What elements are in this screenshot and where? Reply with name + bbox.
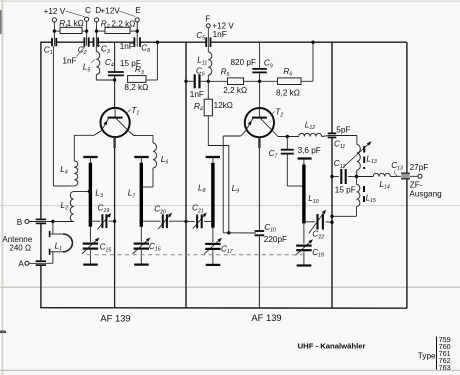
wire T2 emitter — [241, 131, 246, 136]
node C6 on wall — [184, 80, 187, 83]
resistor R5 2.2k — [208, 80, 227, 82]
ground of C17 — [212, 250, 214, 264]
capacitor C12 15pF — [332, 176, 339, 178]
resistor R6 8.2k — [260, 80, 278, 82]
node L11/R4 — [207, 80, 210, 83]
node C22 tap on L10 — [302, 220, 306, 224]
svg-text:15 pF: 15 pF — [335, 186, 356, 195]
ground of C18 — [303, 251, 305, 264]
svg-text:27pF: 27pF — [410, 163, 429, 172]
T1 emitter with arrow — [101, 118, 108, 130]
capacitor C6 1nF — [186, 80, 194, 82]
node D/R2 — [95, 29, 98, 32]
resonant line L8 — [206, 156, 220, 158]
resistor R3 8.2k — [146, 79, 157, 81]
node R3 on top wall — [156, 41, 159, 44]
terminal F +12V — [207, 28, 209, 47]
svg-text:763: 763 — [439, 363, 451, 372]
wire L10 to C18 — [303, 223, 305, 243]
ground of C15 — [89, 250, 91, 264]
terminal E — [136, 22, 138, 38]
svg-text:Ausgang: Ausgang — [409, 189, 442, 198]
transistor T1 — [101, 108, 130, 137]
label pointer D+12V to E — [119, 11, 136, 17]
terminal +12V — [53, 22, 55, 38]
+12V feed to L4 — [53, 185, 74, 187]
inductor L4 — [74, 161, 78, 186]
svg-text:8,2 kΩ: 8,2 kΩ — [124, 83, 148, 92]
inductor L15 adjustable — [356, 177, 358, 185]
trimmer C15 — [83, 243, 98, 245]
wire L3 to C15 — [89, 227, 91, 242]
wire B to L2 — [53, 221, 74, 223]
resistor R2 2.2k — [97, 30, 106, 32]
wire L14 to C13 — [390, 175, 401, 177]
node C12/L13/L15/L14 — [355, 175, 358, 178]
wire L1 to A — [52, 252, 54, 263]
node base T1 — [113, 78, 116, 81]
capacitor C4 15pF in wall — [114, 42, 116, 72]
inductor L14 — [357, 176, 374, 178]
resistor R1 1k — [54, 30, 60, 32]
capacitor C13 27pF feedthrough — [401, 173, 410, 179]
node R6 on top wall — [311, 41, 314, 44]
node C19 tap on L3 — [89, 219, 93, 223]
svg-text:1 kΩ: 1 kΩ — [67, 19, 84, 28]
node C/R1 — [85, 29, 88, 32]
svg-text:1nF: 1nF — [213, 30, 227, 39]
terminal A — [25, 261, 29, 265]
label pointer +12V to C — [66, 11, 85, 17]
resistor R4 12k — [207, 81, 209, 99]
svg-text:240 Ω: 240 Ω — [9, 243, 31, 252]
T1 case lead / wall below — [113, 137, 115, 148]
svg-text:UHF - Kanalwähler: UHF - Kanalwähler — [298, 342, 366, 351]
label pointer C13 — [395, 171, 398, 176]
wire R4 to L9 — [207, 116, 209, 146]
svg-text:220pF: 220pF — [264, 235, 287, 244]
svg-text:2,2 kΩ: 2,2 kΩ — [112, 19, 136, 28]
resonant line L3 — [83, 156, 97, 158]
node B / L1 — [51, 220, 54, 223]
capacitor C3 feedthrough — [93, 37, 95, 46]
svg-text:+12 V: +12 V — [212, 21, 234, 30]
capacitor C7 3.6pF — [286, 137, 288, 150]
terminal C — [86, 21, 88, 45]
capacitor C1 feedthrough 1nF — [51, 38, 53, 46]
wire L8 to C17 — [212, 228, 214, 243]
terminal B — [25, 220, 29, 224]
inductor L13 adjustable — [357, 145, 360, 171]
inductor L6 — [153, 143, 157, 168]
trimmer C16 — [134, 243, 149, 245]
svg-text:1nF: 1nF — [190, 90, 204, 99]
screen wall between mixer and oscillator compartments — [185, 42, 187, 308]
node tap on L3 — [88, 190, 92, 194]
base feed wire stage1 — [96, 79, 114, 81]
svg-text:+12 V: +12 V — [44, 7, 66, 16]
feedthrough capacitor at A — [36, 260, 46, 262]
svg-text:Type: Type — [418, 351, 436, 360]
transistor T2 — [245, 108, 274, 137]
trimmer C18 — [296, 245, 311, 247]
T2 output lead — [258, 137, 260, 148]
node +12V/R1 — [53, 29, 56, 32]
svg-text:AF 139: AF 139 — [100, 313, 130, 324]
inductor L11 — [207, 47, 209, 52]
svg-text:12kΩ: 12kΩ — [214, 101, 233, 110]
capacitor C9 820pF — [259, 42, 261, 69]
node emitter/L9 — [227, 231, 230, 234]
svg-text:E: E — [135, 6, 141, 15]
enclosure right wall — [406, 42, 408, 173]
T2 emitter with arrow — [246, 118, 253, 130]
svg-text:A: A — [18, 260, 24, 269]
feedthrough capacitor at B — [36, 218, 46, 220]
tuner enclosure top wall — [41, 41, 52, 43]
node C22 on wall — [330, 221, 333, 224]
trimmer C22 — [306, 221, 316, 223]
resonant line L7 — [134, 156, 148, 158]
wire +12V feed through C1 — [53, 38, 55, 47]
wire T1 collector — [129, 131, 134, 135]
node L15 on wall — [330, 215, 333, 218]
trimmer C19 — [92, 220, 100, 222]
T2 collector — [260, 118, 273, 131]
wire T2 collector — [273, 131, 278, 136]
wire node to C10 — [229, 232, 256, 234]
node C19 on wall — [113, 220, 116, 223]
capacitor C8 feedthrough 1nF — [133, 37, 135, 47]
svg-text:+12V: +12V — [100, 7, 120, 16]
trimmer C17 — [205, 243, 220, 245]
svg-text:820 pF: 820 pF — [231, 58, 257, 67]
svg-text:B: B — [17, 218, 23, 227]
inductor L2 — [70, 192, 74, 222]
trimmer C20 — [143, 220, 161, 222]
screen wall between oscillator and output compartments — [331, 42, 333, 133]
node base T2 — [258, 80, 261, 83]
antenna loop L1 — [52, 222, 54, 235]
capacitor C11 5pF feedthrough in wall — [328, 132, 337, 134]
svg-text:C: C — [85, 6, 91, 15]
label pointer 1nF to C2 — [77, 47, 85, 57]
enclosure bottom wall — [40, 307, 407, 310]
node C12 on wall — [330, 175, 333, 178]
terminal ZF-Ausgang — [410, 175, 418, 177]
tap C7 to line L10 — [287, 185, 302, 187]
tap L6 to line L7 — [143, 186, 153, 188]
label pointer L5 — [91, 59, 95, 63]
svg-text:1nF: 1nF — [120, 42, 134, 51]
svg-text:F: F — [205, 15, 210, 24]
trimmer C21 — [186, 220, 195, 222]
inductor L5 — [95, 38, 97, 47]
core of L15 — [363, 186, 365, 206]
terminal D — [96, 22, 98, 38]
ground of C16 — [140, 250, 142, 264]
svg-text:AF 139: AF 139 — [251, 312, 281, 323]
svg-text:2,2 kΩ: 2,2 kΩ — [223, 86, 247, 95]
tap L2 to line L3 — [74, 191, 89, 193]
wire T1 emitter — [94, 131, 101, 136]
node C20 on wall — [184, 220, 187, 223]
inductor L12 — [299, 133, 322, 136]
core of L13 — [363, 146, 365, 169]
svg-text:1nF: 1nF — [62, 56, 76, 65]
node E/R2 — [136, 29, 139, 32]
adjust arrow L13 — [344, 145, 369, 168]
resonant line L10 — [298, 157, 312, 159]
capacitor C2 feedthrough 1nF — [83, 37, 85, 46]
T1 collector — [116, 118, 129, 131]
svg-text:8,2 kΩ: 8,2 kΩ — [276, 88, 300, 97]
enclosure left wall — [40, 42, 42, 219]
capacitor C5 feedthrough 1nF — [205, 37, 207, 47]
wire L7 to C16 — [140, 227, 142, 242]
wire L15 to wall — [356, 207, 358, 217]
wire L12 to C11 — [322, 136, 329, 137]
svg-text:ZF-: ZF- — [410, 181, 423, 190]
capacitor C10 220pF — [255, 230, 265, 232]
node collector/C7 — [286, 135, 289, 138]
svg-text:5pF: 5pF — [336, 125, 350, 134]
label pointer C3 — [98, 44, 101, 47]
inductor L9 (lead) — [228, 146, 230, 233]
tuning gang dashed link — [87, 254, 305, 256]
wire C11 to L13 — [356, 136, 358, 145]
svg-text:3,6 pF: 3,6 pF — [298, 146, 321, 155]
